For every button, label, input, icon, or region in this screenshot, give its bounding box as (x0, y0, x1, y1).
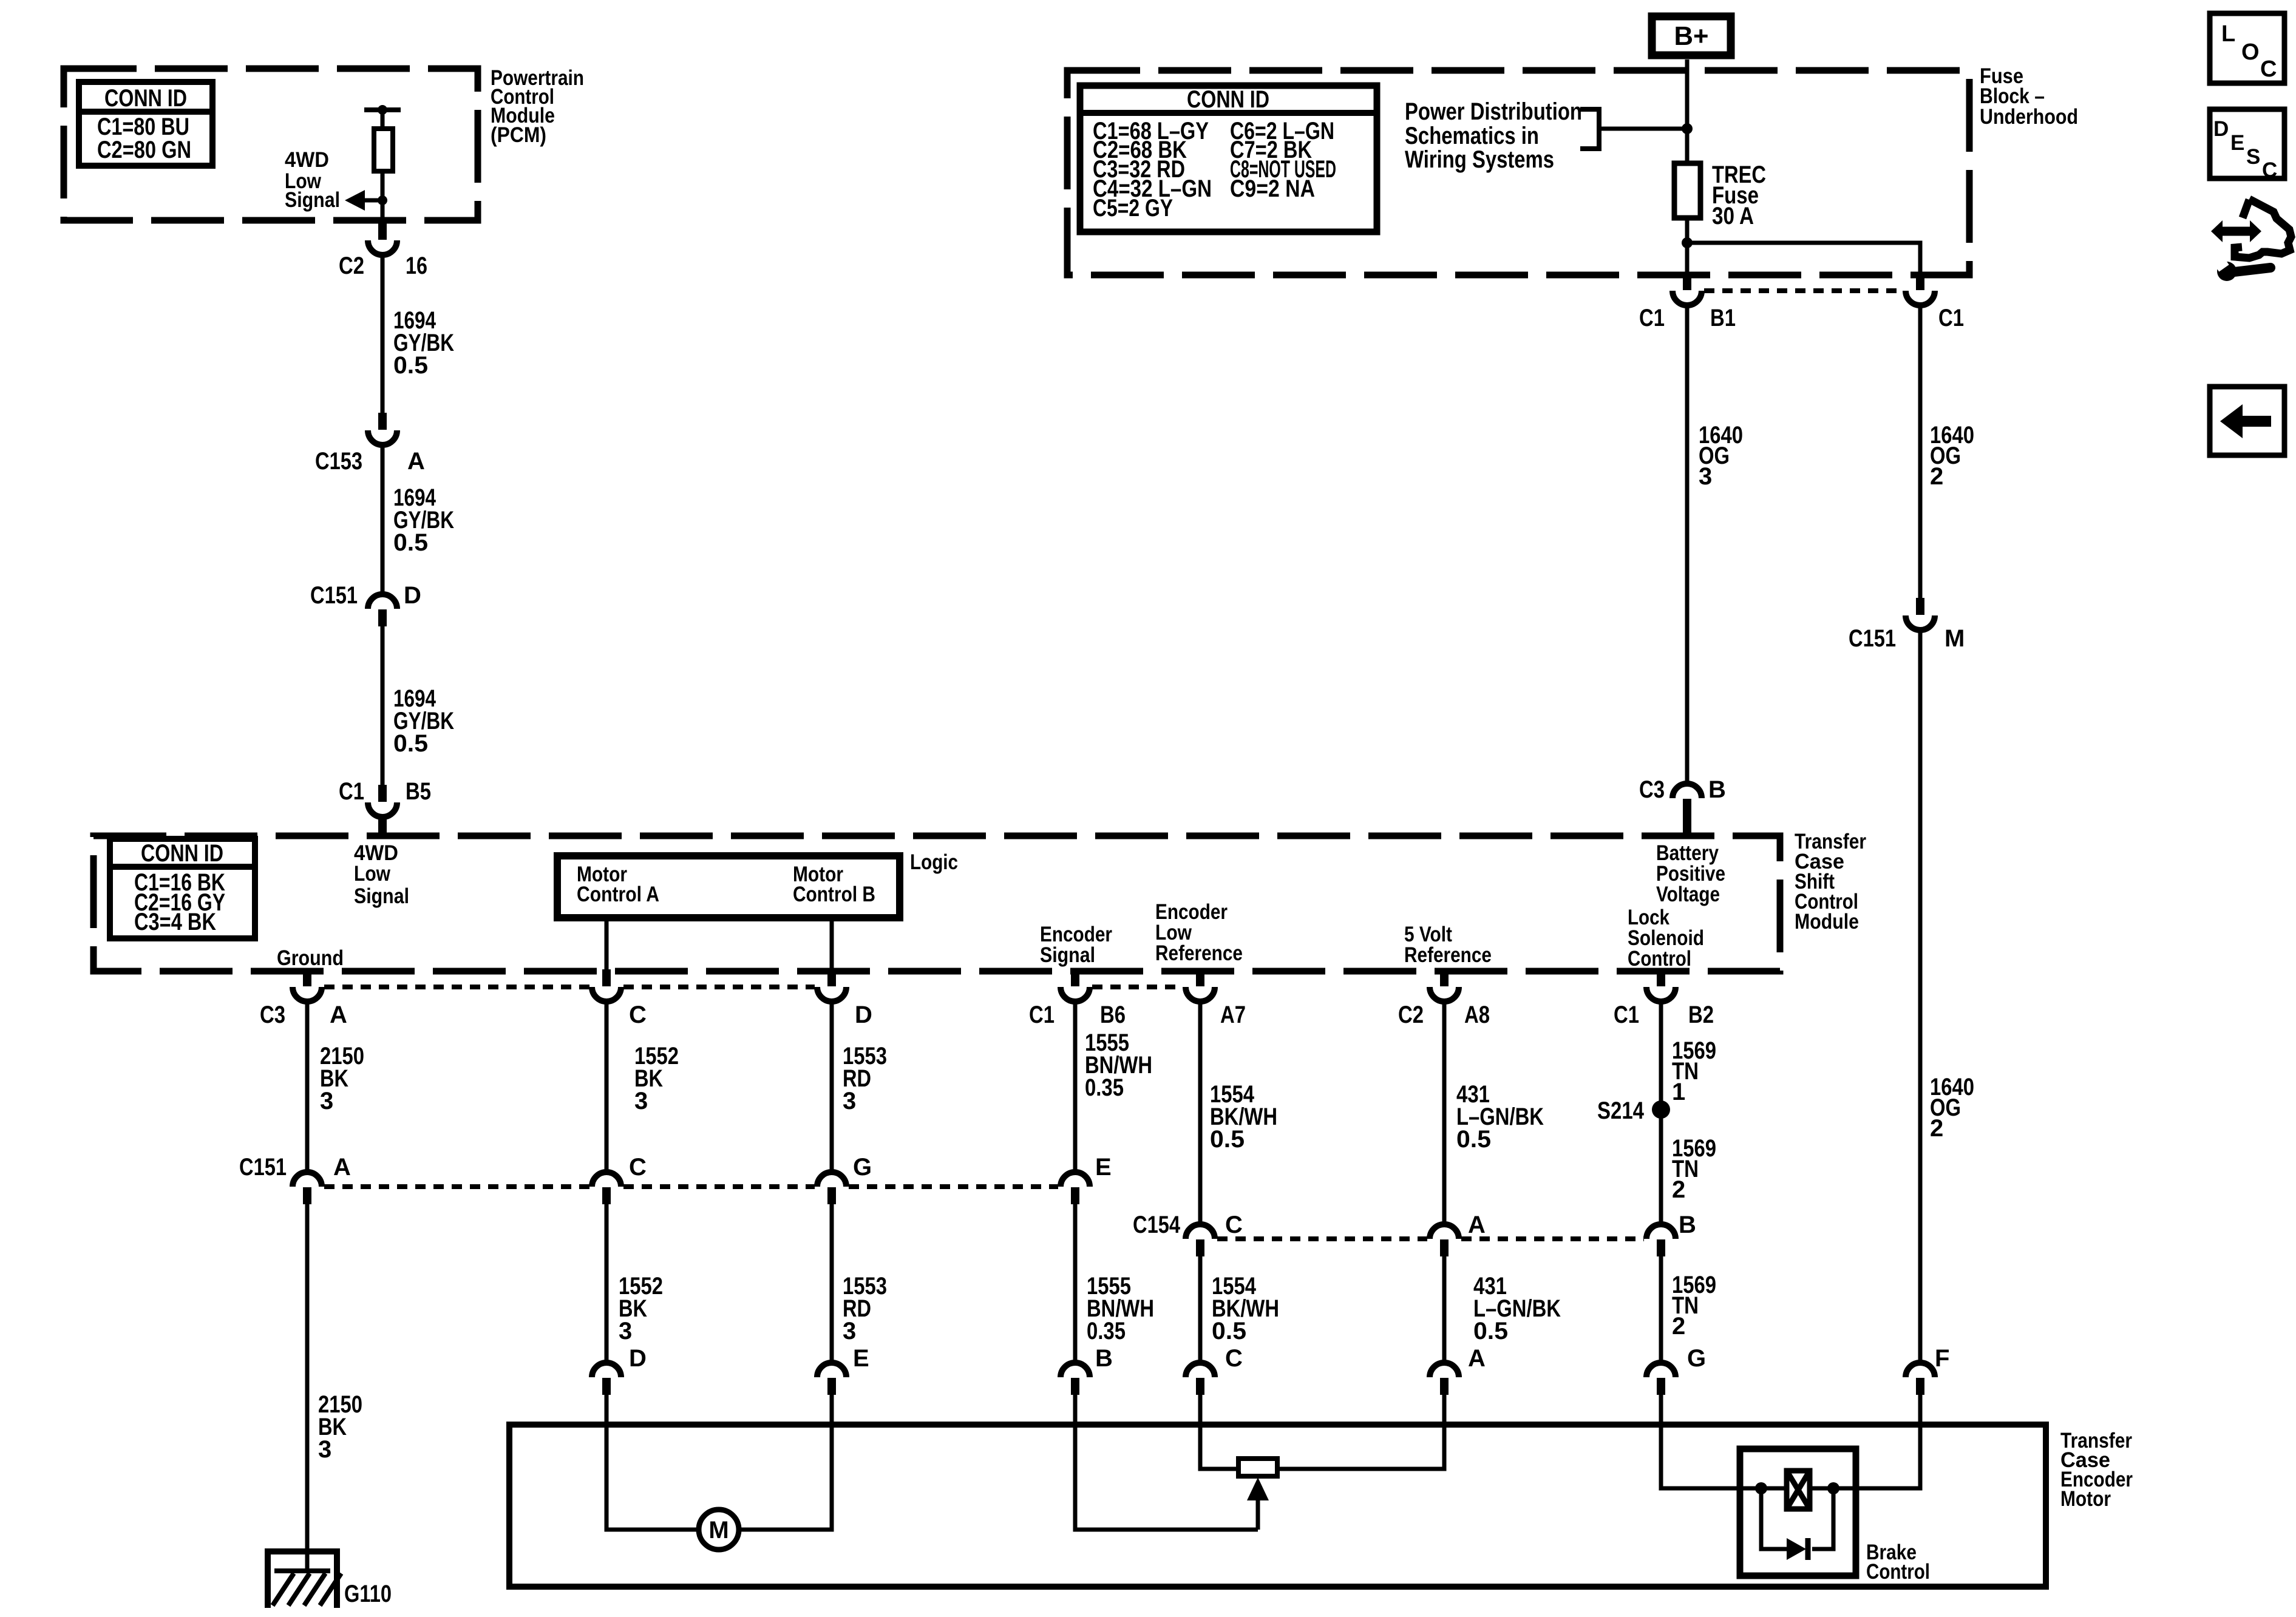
wire motor A C to C151C (605, 1002, 609, 1172)
connector C154 pin B (1646, 1224, 1676, 1256)
label wire 1569 TN 2 (lower) (1672, 1272, 1716, 1340)
svg-text:A8: A8 (1464, 1002, 1490, 1028)
svg-text:C153: C153 (315, 448, 362, 475)
wire 1554 to C (1198, 1256, 1203, 1363)
svg-text:0.5: 0.5 (393, 352, 428, 379)
svg-text:D: D (2213, 117, 2229, 141)
label: Powertrain Control Module (PCM) (491, 66, 584, 147)
wire rail to resistor (381, 110, 385, 129)
label wire 1640 OG 2 (lower) (1930, 1074, 1974, 1142)
svg-text:C1: C1 (1614, 1002, 1639, 1028)
svg-text:Power Distribution: Power Distribution (1405, 98, 1582, 125)
svg-text:C151: C151 (310, 582, 358, 609)
wire resistor to PCM box edge (381, 171, 385, 223)
svg-text:C: C (629, 1002, 647, 1028)
svg-text:Low: Low (354, 862, 391, 886)
svg-text:B6: B6 (1100, 1002, 1126, 1028)
connector pin A (encoder motor) (1430, 1363, 1459, 1395)
icon: back arrow box (2210, 387, 2284, 455)
svg-text:Control A: Control A (577, 883, 659, 906)
module box: Transfer Case Shift Control Module (dashed) (93, 836, 1780, 971)
svg-text:1: 1 (1672, 1079, 1685, 1105)
labels row1 connectors (260, 1002, 1714, 1028)
connector pin A7 (1186, 969, 1215, 1002)
connector C151 pin A (293, 1172, 322, 1204)
label wire 1569 TN 1 (1672, 1037, 1716, 1105)
label wire 1554 BK/WH 0.5 (upper) (1210, 1081, 1277, 1153)
svg-text:C2=80 GN: C2=80 GN (97, 137, 191, 163)
wire bracket to B+ feed (1599, 127, 1687, 131)
svg-text:C9=2 NA: C9=2 NA (1230, 175, 1315, 202)
label: Transfer Case Shift Control Module (1795, 830, 1866, 934)
label wire 1640 OG 2 (upper) (1930, 422, 1974, 490)
dotted connector line row1 b (623, 985, 815, 989)
connector C151 pin D (368, 594, 397, 626)
label wire 1555 BN/WH 0.35 (lower) (1087, 1273, 1154, 1344)
svg-text:2: 2 (1672, 1176, 1685, 1203)
label: 4WD Low Signal (TCSCM) (354, 841, 409, 908)
connector C154 pin C (1186, 1224, 1215, 1256)
wire diode loop right (1812, 1488, 1833, 1549)
svg-text:C3: C3 (1639, 776, 1665, 803)
svg-text:B5: B5 (406, 778, 431, 805)
junction S214 (1652, 1100, 1670, 1119)
svg-text:Signal: Signal (354, 884, 409, 908)
svg-text:A: A (407, 448, 425, 475)
label wire 1694 GY/BK 0.5 (2) (393, 484, 454, 556)
svg-text:2: 2 (1930, 463, 1943, 490)
connector C2 pin 16 (368, 223, 397, 255)
label: 4WD Low Signal (PCM) (285, 148, 340, 212)
svg-text:A: A (333, 1154, 351, 1181)
labels row2 connectors (239, 1154, 1112, 1181)
logic box (557, 856, 900, 918)
junction dot brake left (1755, 1482, 1767, 1494)
svg-text:B+: B+ (1674, 21, 1709, 51)
icon: DESC box (2210, 109, 2284, 182)
label C151 / M (1849, 625, 1965, 652)
svg-text:B1: B1 (1710, 305, 1736, 331)
svg-text:E: E (2230, 131, 2244, 155)
svg-text:C1: C1 (339, 778, 364, 805)
wire 1569 to G (1659, 1256, 1663, 1363)
wire 1694 GY/BK segment 1 (381, 255, 385, 413)
svg-text:G: G (1687, 1345, 1706, 1372)
wire 431 to A (1442, 1256, 1447, 1363)
svg-text:Signal: Signal (285, 188, 340, 212)
svg-text:0.5: 0.5 (393, 730, 428, 757)
labels C1 / B1 / C1 (1639, 305, 1964, 331)
svg-text:C: C (2260, 56, 2277, 82)
wire logic box to Motor A pin (605, 918, 609, 969)
label: Brake Control (1866, 1541, 1930, 1584)
dotted connector line row2 a (324, 1184, 589, 1189)
potentiometer resistor element (1238, 1459, 1277, 1476)
wire 1640 OG 2 long (1918, 630, 1923, 1363)
svg-text:C: C (629, 1154, 647, 1181)
junction dot below fuse (1682, 237, 1693, 248)
svg-text:3: 3 (318, 1436, 331, 1463)
svg-text:E: E (1095, 1154, 1112, 1181)
connector C1 pin B2 (1646, 969, 1676, 1002)
connector C154 pin A (1430, 1224, 1459, 1256)
svg-text:C3=4 BK: C3=4 BK (134, 909, 216, 935)
wire ground C3A to C151A (305, 1002, 310, 1172)
wire 1694 GY/BK segment 2 (381, 445, 385, 594)
svg-text:C151: C151 (1849, 625, 1896, 652)
svg-text:4WD: 4WD (285, 148, 329, 172)
wire C to pot left (1200, 1395, 1238, 1469)
label wire 431 L-GN/BK 0.5 (lower) (1473, 1273, 1561, 1344)
label: Battery Positive Voltage (1656, 841, 1725, 906)
module box: Powertrain Control Module (dashed) (64, 69, 478, 220)
svg-text:B: B (1095, 1345, 1113, 1372)
label: Power Distribution Schematics in Wiring Systems (1405, 98, 1582, 173)
label C1 / B5 (339, 778, 431, 805)
svg-text:2: 2 (1930, 1115, 1943, 1142)
svg-text:D: D (404, 582, 421, 609)
svg-text:CONN ID: CONN ID (141, 840, 223, 867)
dotted connector line C1 (1704, 288, 1903, 293)
icon: vehicle with double arrow and wrench (2211, 199, 2291, 281)
wire B+ down (1685, 59, 1690, 163)
connector pin G (encoder motor) (1646, 1363, 1676, 1395)
label wire 1553 RD 3 (lower) (843, 1273, 887, 1344)
wire logic box to Motor B pin (830, 918, 834, 969)
dotted connector line row1 c (1092, 985, 1183, 989)
svg-text:Schematics in: Schematics in (1405, 123, 1539, 149)
potentiometer wiper arrow (1247, 1477, 1269, 1530)
connector pin F (encoder motor) (1906, 1363, 1935, 1395)
svg-text:Wiring Systems: Wiring Systems (1405, 146, 1554, 173)
dotted connector line C154 b (1461, 1236, 1644, 1241)
B+ battery terminal box (1652, 16, 1731, 55)
svg-text:C1: C1 (1938, 305, 1964, 331)
connector C151 pin M (1906, 598, 1935, 630)
label: Encoder Low Reference (1155, 900, 1243, 965)
wire encoder low ref A7 to C154C (1198, 1002, 1203, 1224)
svg-text:Reference: Reference (1155, 941, 1243, 965)
resistor (4WD Low pull-up) (374, 129, 393, 171)
label C153 / A (315, 448, 425, 475)
labels row3 connectors (629, 1345, 1949, 1372)
labels C154 connectors (1133, 1212, 1696, 1238)
label wire 1555 BN/WH 0.35 (upper) (1085, 1029, 1152, 1101)
label: Ground (277, 946, 344, 970)
module box: Transfer Case Encoder Motor (509, 1425, 2046, 1587)
svg-text:3: 3 (634, 1088, 648, 1114)
Fuse block CONN ID table (1080, 86, 1377, 232)
svg-text:A: A (1468, 1212, 1486, 1238)
motor M (699, 1510, 739, 1550)
svg-text:Reference: Reference (1404, 943, 1492, 967)
svg-text:Control: Control (1628, 947, 1691, 971)
svg-text:D: D (855, 1002, 872, 1028)
svg-text:A: A (1468, 1345, 1486, 1372)
svg-text:B: B (1679, 1212, 1696, 1238)
svg-text:3: 3 (619, 1318, 632, 1344)
wire 1694 GY/BK segment 3 (381, 626, 385, 785)
svg-text:Control B: Control B (793, 883, 875, 906)
svg-text:3: 3 (320, 1088, 333, 1114)
connector pin D (encoder motor) (592, 1363, 621, 1395)
junction dot at B+ feed (1682, 123, 1693, 134)
label wire 1552 BK 3 (upper) (634, 1043, 679, 1114)
wire 1555 to B (1073, 1204, 1078, 1363)
diode (1787, 1538, 1808, 1560)
svg-text:2: 2 (1672, 1313, 1685, 1340)
svg-text:M: M (1944, 625, 1965, 652)
svg-text:B: B (1708, 776, 1726, 803)
connector C151 pin G (817, 1172, 846, 1204)
svg-text:C: C (2262, 158, 2277, 182)
bracket to power distribution (1580, 109, 1599, 149)
svg-text:0.5: 0.5 (1210, 1126, 1245, 1153)
connector pin D (motor B) (817, 969, 846, 1002)
svg-text:CONN ID: CONN ID (104, 85, 187, 112)
wire 1640 OG 2 upper (1918, 305, 1923, 598)
svg-text:C3: C3 (260, 1002, 285, 1028)
junction dot 4WD Low Signal (378, 195, 387, 205)
label wire 1553 RD 3 (upper) (843, 1043, 887, 1114)
svg-text:C2: C2 (339, 253, 364, 279)
svg-text:0.5: 0.5 (1212, 1318, 1246, 1344)
pin stub into TCSCM box (378, 816, 387, 836)
wire 5V ref A8 to C154A (1442, 1002, 1447, 1224)
svg-text:30 A: 30 A (1712, 203, 1754, 229)
svg-text:3: 3 (1699, 463, 1712, 490)
svg-text:Underhood: Underhood (1980, 105, 2078, 129)
label: Logic (910, 850, 958, 874)
svg-text:A7: A7 (1220, 1002, 1246, 1028)
wire 1552 to D (605, 1204, 609, 1363)
connector C1 (right) (1906, 273, 1935, 305)
svg-text:F: F (1935, 1345, 1949, 1372)
label wire 1554 BK/WH 0.5 (lower) (1212, 1273, 1279, 1344)
connector C3 pin A (ground) (293, 969, 322, 1002)
label C151 / D (310, 582, 421, 609)
wire A to pot right (1277, 1395, 1444, 1469)
junction dot brake right (1827, 1482, 1839, 1494)
svg-text:(PCM): (PCM) (491, 123, 546, 147)
svg-text:C1: C1 (1639, 305, 1665, 331)
svg-text:0.5: 0.5 (393, 529, 428, 556)
svg-text:Motor: Motor (2060, 1487, 2111, 1511)
connector C151 pin C (592, 1172, 621, 1204)
dotted connector line row2 b (623, 1184, 815, 1189)
TREC fuse 30A (1674, 163, 1700, 218)
svg-text:C151: C151 (239, 1154, 287, 1181)
svg-text:3: 3 (843, 1318, 856, 1344)
svg-text:C154: C154 (1133, 1212, 1181, 1238)
label wire 1552 BK 3 (lower) (619, 1273, 663, 1344)
wire 1640 OG 3 (1685, 305, 1690, 784)
svg-text:L: L (2221, 21, 2235, 47)
label: Fuse Block - Underhood (1980, 64, 2078, 129)
brake control box (1740, 1449, 1856, 1576)
connector pin E (encoder motor) (817, 1363, 846, 1395)
connector C1 pin B5 (368, 785, 397, 817)
svg-text:0.35: 0.35 (1085, 1074, 1124, 1101)
svg-text:G: G (853, 1154, 872, 1181)
svg-text:3: 3 (843, 1088, 856, 1114)
svg-text:Ground: Ground (277, 946, 344, 970)
internal rail bar (364, 107, 401, 112)
wire B to wiper (1075, 1395, 1258, 1530)
label C3 / B (1639, 776, 1726, 803)
svg-text:C2: C2 (1398, 1002, 1424, 1028)
svg-text:O: O (2241, 39, 2260, 65)
dotted connector line C154 a (1217, 1236, 1427, 1241)
svg-text:S214: S214 (1597, 1097, 1645, 1124)
wire ground to G110 (305, 1204, 310, 1572)
label: TREC Fuse 30 A (1712, 161, 1766, 229)
label: Motor Control A (577, 863, 659, 906)
wire fuse output to right branch (1687, 243, 1920, 275)
label: Encoder Signal (1040, 923, 1112, 967)
connector C2 pin A8 (1430, 969, 1459, 1002)
wire lock solenoid B2 to C154B (1659, 1002, 1663, 1224)
svg-text:A: A (330, 1002, 347, 1028)
svg-text:C: C (1225, 1345, 1243, 1372)
wire diode loop left (1761, 1488, 1787, 1549)
wire motor B D to C151G (830, 1002, 834, 1172)
svg-text:16: 16 (406, 253, 427, 279)
svg-text:C1: C1 (1029, 1002, 1055, 1028)
icon: LOC box (2210, 13, 2284, 83)
module box: Fuse Block - Underhood (dashed) (1067, 70, 1969, 275)
svg-text:CONN ID: CONN ID (1187, 86, 1269, 113)
wire 1553 to E (830, 1204, 834, 1363)
wire D into motor (606, 1395, 699, 1530)
connector C1 pin B6 (1061, 969, 1090, 1002)
label C2 / 16 (339, 253, 427, 279)
svg-text:S: S (2246, 145, 2260, 169)
PCM CONN ID table (79, 82, 212, 166)
brake solenoid (box with X) (1787, 1471, 1810, 1509)
svg-text:Module: Module (1795, 910, 1859, 934)
connector C3 pin B (1673, 784, 1702, 816)
arrow: 4WD Low Signal (points left) (345, 190, 383, 211)
svg-text:E: E (853, 1345, 869, 1372)
connector C151 pin E (1061, 1172, 1090, 1204)
wire encoder signal B6 to E (1073, 1002, 1078, 1172)
ground symbol G110 (268, 1551, 341, 1608)
wire G to brake solenoid (1661, 1395, 1787, 1488)
pin stub into TCSCM box (battery) (1683, 816, 1691, 836)
svg-text:Logic: Logic (910, 850, 958, 874)
label: 5 Volt Reference (1404, 923, 1492, 967)
connector pin C (motor A) (592, 969, 621, 1002)
wire E into motor (739, 1395, 832, 1530)
wire brake solenoid to F (1810, 1395, 1920, 1488)
label: Lock Solenoid Control (1628, 906, 1704, 971)
label wire 1640 OG 3 (1699, 422, 1743, 490)
dotted connector line row2 c (849, 1184, 1058, 1189)
label wire 431 L-GN/BK 0.5 (upper) (1456, 1081, 1544, 1153)
label wire 2150 BK 3 (upper) (320, 1043, 364, 1114)
svg-text:G110: G110 (344, 1581, 392, 1607)
connector pin B (encoder motor) (1061, 1363, 1090, 1395)
TCSCM CONN ID table (110, 839, 255, 938)
label wire 1694 GY/BK 0.5 (3) (393, 685, 454, 757)
label wire 1569 TN 2 (upper) (1672, 1135, 1716, 1203)
connector C153 pin A (368, 413, 397, 445)
label wire 1694 GY/BK 0.5 (1) (393, 307, 454, 379)
dotted connector line row1 a (324, 985, 589, 989)
svg-text:C: C (1225, 1212, 1243, 1238)
connector C1 pin B1 (1673, 273, 1702, 305)
svg-text:Control: Control (1866, 1560, 1930, 1584)
wire fuse to box edge (1685, 218, 1690, 275)
svg-text:0.5: 0.5 (1473, 1318, 1508, 1344)
label wire 2150 BK 3 (lower) (318, 1391, 362, 1463)
svg-text:0.5: 0.5 (1456, 1126, 1491, 1153)
svg-text:Signal: Signal (1040, 943, 1095, 967)
svg-text:Voltage: Voltage (1656, 883, 1720, 906)
svg-text:D: D (629, 1345, 647, 1372)
label: Motor Control B (793, 863, 875, 906)
svg-text:M: M (708, 1517, 729, 1544)
junction dot on rail (378, 105, 387, 115)
svg-text:C5=2 GY: C5=2 GY (1093, 195, 1173, 222)
label: Transfer Case Encoder Motor (2060, 1429, 2133, 1511)
svg-text:B2: B2 (1688, 1002, 1714, 1028)
connector pin C (encoder motor) (1186, 1363, 1215, 1395)
svg-text:0.35: 0.35 (1087, 1318, 1126, 1344)
